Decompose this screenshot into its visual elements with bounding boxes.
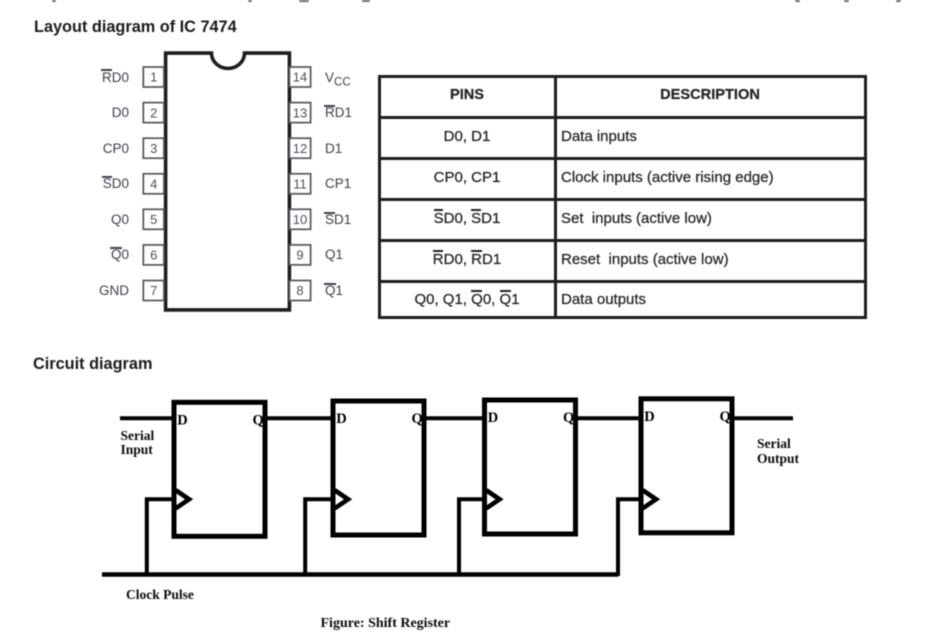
label: Clock Pulse	[126, 588, 194, 601]
svg-text:D: D	[488, 410, 498, 426]
clock arrowhead at U3	[486, 490, 499, 508]
wire Q3 to D4	[575, 416, 641, 420]
table row 4: SD0, SD1 / Set inputs	[381, 209, 553, 228]
svg-text:D: D	[177, 412, 187, 428]
IC body U1 outline with index notch	[166, 53, 290, 310]
cut-off text line descenders at top edge	[52, 0, 56, 2]
D/Q pin labels of flip-flops	[177, 409, 731, 429]
pin label CP0 (pin 3)	[57, 139, 129, 158]
svg-text:Q: Q	[253, 412, 264, 428]
pin label SD0 (pin 4)	[57, 174, 129, 193]
pin numbers	[150, 70, 307, 299]
clock bus line	[102, 572, 618, 577]
label: Serial Output	[757, 436, 799, 467]
clock arrowhead at U4	[643, 490, 656, 508]
pin 10 box	[289, 209, 310, 229]
table header cell DESCRIPTION	[557, 86, 863, 105]
pin label Q0-bar (pin 6)	[57, 245, 129, 264]
pin 14 box	[289, 67, 310, 87]
flip-flop U4 box	[641, 399, 732, 533]
svg-text:D: D	[336, 411, 346, 427]
pin 2 box	[143, 103, 164, 123]
label: Serial Input	[121, 429, 155, 457]
pin 11 box	[289, 174, 310, 194]
table outer/inner grid lines	[378, 75, 867, 78]
table row 3: CP0, CP1 / Clock inputs	[381, 168, 553, 187]
pin 5 box	[143, 209, 164, 229]
clock riser wire to U2	[305, 499, 333, 576]
heading: Layout diagram of IC 7474	[34, 18, 237, 37]
svg-text:Q: Q	[563, 410, 574, 426]
flip-flop U3 box	[485, 400, 576, 534]
flip-flop U2 box	[333, 401, 424, 535]
clock arrowhead at U1	[176, 490, 189, 508]
svg-text:Q: Q	[720, 409, 731, 425]
clock riser wire to U1	[147, 499, 174, 576]
pin label VCC (pin 14)	[325, 68, 351, 87]
pin 1 box	[143, 67, 164, 87]
table row 6: Q outputs / Data outputs	[381, 290, 553, 309]
pin label Q1-bar (pin 8)	[325, 281, 343, 300]
table row 2: D0, D1 / Data inputs	[381, 127, 553, 146]
clock arrowhead at U2	[335, 490, 348, 508]
pin 13 box	[289, 103, 310, 123]
clock riser wire to U3	[459, 499, 485, 576]
pin label RD0 (pin 1)	[57, 68, 129, 87]
pin label Q0 (pin 5)	[57, 210, 129, 229]
pin label Q1 (pin 9)	[325, 245, 343, 264]
pin 6 box	[143, 245, 164, 265]
svg-text:D: D	[644, 409, 654, 425]
clock riser wire to U4	[618, 499, 641, 576]
pin 7 box	[143, 281, 164, 301]
svg-text:Q: Q	[412, 411, 423, 427]
pin label SD1 (pin 10)	[325, 210, 351, 229]
pin 12 box	[289, 138, 310, 158]
caption: Figure: Shift Register	[321, 617, 451, 630]
pin 4 box	[143, 174, 164, 194]
pin label D0 (pin 2)	[57, 103, 129, 122]
wire Q1 to D2	[264, 416, 333, 420]
table row 5: RD0, RD1 / Reset inputs	[381, 250, 553, 269]
serial output wire	[731, 416, 793, 420]
pin 9 box	[289, 245, 310, 265]
flip-flop U1 box	[174, 402, 265, 536]
pin label CP1 (pin 11)	[325, 174, 351, 193]
pin label GND (pin 7)	[57, 281, 129, 300]
wire Q2 to D3	[423, 416, 485, 420]
serial input wire	[120, 416, 173, 420]
pin 8 box	[289, 281, 310, 301]
table header cell PINS	[381, 86, 553, 105]
pin label D1 (pin 12)	[325, 139, 342, 158]
heading: Circuit diagram	[33, 355, 152, 374]
pin 3 box	[143, 138, 164, 158]
pin label RD1 (pin 13)	[325, 103, 352, 122]
